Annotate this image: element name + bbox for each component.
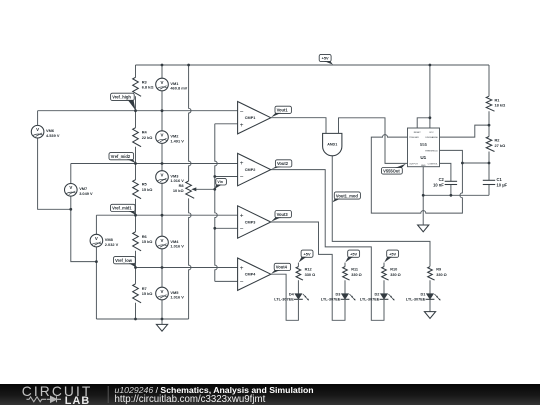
voltmeter VM2	[156, 131, 185, 144]
svg-text:10 nF: 10 nF	[433, 183, 444, 188]
junction dot VM7/VM8	[95, 260, 98, 263]
capacitor C1	[483, 177, 508, 188]
potentiometer R8	[173, 181, 196, 198]
wire 555 GND stub	[422, 167, 424, 196]
wire ladder column	[135, 65, 137, 319]
node label Vout3	[271, 211, 291, 222]
svg-text:D4: D4	[289, 292, 295, 296]
comparator CMP3	[238, 206, 271, 238]
wire R1 R2 C1 column	[488, 65, 490, 195]
svg-text:CMP3: CMP3	[245, 220, 256, 224]
svg-text:TRIGGER: TRIGGER	[409, 137, 419, 139]
voltmeter VM7	[65, 184, 94, 197]
svg-text:Vout1: Vout1	[277, 108, 289, 113]
svg-text:1.016 V: 1.016 V	[170, 295, 184, 300]
wire 555 trigger-threshold loop	[371, 135, 462, 214]
node label Vout2	[271, 160, 292, 169]
svg-text:LAB: LAB	[65, 395, 91, 405]
junction dot reset/vcc	[429, 116, 432, 119]
svg-text:Vref_high: Vref_high	[112, 95, 131, 100]
ground (reference ladder)	[156, 319, 167, 331]
wire Vref_mid1 net	[96, 214, 237, 216]
junction dots Vin column	[213, 175, 216, 230]
svg-text:R9: R9	[436, 268, 441, 272]
svg-text:CMP2: CMP2	[245, 168, 256, 172]
svg-text:+5V: +5V	[304, 251, 311, 256]
wire 555 reset jog	[417, 118, 430, 128]
resistor R10	[382, 267, 401, 280]
wire +5V rail	[136, 64, 490, 66]
resistor R9	[428, 267, 447, 280]
svg-text:−: −	[240, 226, 244, 233]
wire AND1 output Vout1_mod to R9	[332, 156, 430, 267]
junction dot VM6/VM7	[69, 208, 72, 211]
svg-text:2.032 V: 2.032 V	[105, 242, 119, 247]
svg-text:LTL-307EE: LTL-307EE	[360, 298, 380, 302]
node label Vout1	[271, 106, 291, 117]
svg-text:−: −	[240, 174, 244, 181]
junction dots Vref_mid1	[134, 214, 163, 217]
svg-text:R10: R10	[390, 268, 397, 272]
ground (555 timer)	[418, 195, 429, 232]
wire control to C2	[440, 163, 451, 181]
svg-text:+: +	[240, 160, 244, 167]
voltmeter VM3	[156, 171, 185, 184]
junction dots Vref_low	[134, 266, 163, 269]
comparator CMP4	[238, 258, 271, 290]
footer bar	[0, 384, 540, 405]
wire R8 wiper to Vin	[193, 188, 215, 190]
svg-text:3.049 V: 3.049 V	[79, 191, 93, 196]
led D1	[406, 292, 441, 301]
wire CMP1 noninverting input	[215, 123, 238, 125]
svg-text:6.8 kΩ: 6.8 kΩ	[142, 85, 154, 90]
wire VM7 to Vref_mid2	[70, 164, 72, 184]
junction dots ground bus	[134, 318, 163, 321]
svg-text:C2: C2	[439, 177, 445, 182]
node label Vout4	[271, 263, 290, 274]
svg-text:+: +	[240, 265, 244, 272]
svg-text:330 Ω: 330 Ω	[390, 273, 401, 277]
node label Vin	[215, 178, 227, 188]
resistor R1	[486, 96, 505, 111]
node label Vref_mid2	[109, 153, 136, 163]
svg-text:V: V	[161, 133, 164, 138]
svg-text:CONTROL: CONTROL	[428, 164, 439, 166]
wire CMP3 inverting input	[215, 227, 238, 229]
wire Vref_low net	[136, 267, 238, 269]
CircuitLab logo	[22, 384, 93, 405]
svg-text:10 kΩ: 10 kΩ	[173, 188, 184, 193]
svg-text:C1: C1	[497, 177, 503, 182]
junction dots analog ground	[422, 194, 452, 197]
footer text line 2	[115, 394, 266, 405]
svg-text:GND: GND	[421, 165, 426, 167]
svg-text:4.539 V: 4.539 V	[46, 133, 60, 138]
junction dots +5V rail	[161, 64, 432, 67]
wire R12 branch	[297, 263, 299, 294]
wire VM6 to Vref_high	[37, 111, 39, 126]
wire Vout1 to AND1 input A	[271, 118, 326, 134]
svg-text:15 kΩ: 15 kΩ	[142, 187, 153, 192]
svg-text:15 kΩ: 15 kΩ	[142, 291, 153, 296]
svg-text:1.491 V: 1.491 V	[170, 138, 184, 143]
svg-text:OUTPUT: OUTPUT	[409, 164, 418, 166]
svg-text:LTL-307EE: LTL-307EE	[274, 298, 294, 302]
node label +5V (R12)	[299, 250, 313, 262]
comparator CMP2	[238, 153, 271, 185]
wire R8 bottom column to ground bus (hops Vref_mid1, Vref_low)	[189, 198, 191, 319]
svg-text:555: 555	[420, 142, 428, 147]
svg-text:1.016 V: 1.016 V	[170, 244, 184, 249]
svg-text:Vout2: Vout2	[277, 161, 289, 166]
node label +5V (R10)	[384, 250, 398, 262]
led D4	[274, 292, 309, 301]
wire CMP4 inverting input	[215, 280, 238, 282]
led D2	[360, 292, 395, 301]
555 timer U1	[408, 128, 440, 167]
wire discharge to R1/R2 junction	[440, 125, 490, 137]
resistor R4	[133, 128, 153, 147]
svg-text:15 kΩ: 15 kΩ	[142, 239, 153, 244]
svg-text:Vref_mid1: Vref_mid1	[112, 206, 132, 211]
svg-text:RESET: RESET	[414, 132, 422, 134]
svg-text:R11: R11	[351, 268, 359, 272]
wire C2 bottom	[450, 185, 452, 196]
svg-text:DISCHARGE: DISCHARGE	[425, 136, 438, 139]
node label Vref_mid1	[111, 204, 136, 214]
svg-text:1.016 V: 1.016 V	[170, 178, 184, 183]
svg-text:V: V	[69, 185, 72, 190]
svg-text:330 Ω: 330 Ω	[305, 273, 316, 277]
wire threshold to R2 bottom	[462, 162, 489, 164]
svg-text:V555Out: V555Out	[383, 168, 400, 173]
svg-text:Vout4: Vout4	[276, 265, 288, 270]
svg-text:R12: R12	[305, 268, 312, 272]
svg-text:V: V	[161, 80, 164, 85]
svg-text:V: V	[161, 238, 164, 243]
resistor R7	[133, 284, 153, 303]
svg-text:460.8 mV: 460.8 mV	[170, 86, 187, 91]
voltmeter VM5	[156, 287, 185, 300]
footer divider	[107, 386, 109, 403]
wire D1 to ground	[429, 299, 431, 311]
node label V555Out	[382, 164, 406, 174]
wire R8 top column (hops Vref_high, Vref_mid2)	[189, 65, 191, 181]
junction dots threshold node	[461, 162, 490, 165]
svg-text:V: V	[161, 289, 164, 294]
svg-text:U1: U1	[420, 155, 426, 160]
resistor R11	[343, 267, 362, 280]
svg-text:CMP1: CMP1	[245, 116, 256, 120]
wire Vref_high net	[38, 110, 238, 112]
svg-text:LTL-307EE: LTL-307EE	[321, 298, 341, 302]
wire Vout3 to D2 branch	[271, 222, 345, 320]
node label Vout1_mod	[333, 192, 361, 202]
svg-text:Vout1_mod: Vout1_mod	[336, 193, 358, 198]
svg-text:330 Ω: 330 Ω	[351, 273, 362, 277]
svg-text:CMP4: CMP4	[245, 273, 256, 277]
svg-text:V: V	[95, 236, 98, 241]
node label Vref_low	[114, 257, 136, 267]
ground (LED D1)	[424, 312, 435, 319]
footer text line 1	[115, 385, 314, 395]
svg-text:Vin: Vin	[217, 180, 223, 184]
voltmeter VM4	[156, 236, 185, 249]
svg-text:V: V	[36, 127, 39, 132]
svg-text:D3: D3	[335, 292, 340, 296]
node label Vref_high	[111, 93, 136, 110]
svg-text:27 kΩ: 27 kΩ	[495, 143, 506, 148]
voltmeter VM6	[31, 125, 60, 138]
wire Vout4 to D4 branch	[271, 274, 299, 320]
svg-text:+: +	[240, 213, 244, 220]
svg-text:VCC: VCC	[429, 132, 434, 134]
capacitor C2	[433, 177, 457, 188]
resistor R5	[133, 180, 153, 199]
svg-text:330 Ω: 330 Ω	[436, 273, 447, 277]
svg-text:LTL-307EE: LTL-307EE	[406, 298, 426, 302]
svg-text:+5V: +5V	[350, 251, 357, 256]
voltmeter VM1	[156, 78, 188, 91]
svg-text:AND1: AND1	[327, 142, 337, 146]
svg-text:+5V: +5V	[322, 56, 329, 61]
junction dot discharge node	[488, 124, 491, 127]
svg-text:D1: D1	[420, 292, 426, 296]
resistor R2	[486, 137, 505, 152]
resistor R12	[296, 267, 315, 280]
svg-text:−: −	[240, 108, 244, 115]
wire Vref_mid2 net	[71, 163, 238, 165]
svg-text:22 kΩ: 22 kΩ	[142, 135, 153, 140]
voltmeter VM8	[90, 234, 119, 247]
svg-text:18 kΩ: 18 kΩ	[495, 103, 506, 108]
wire R11 branch	[344, 263, 346, 294]
wire VM8 to ground bus	[95, 247, 97, 319]
comparator CMP1	[238, 102, 271, 134]
wire VM6 to ground bus	[38, 138, 71, 209]
svg-text:+5V: +5V	[389, 251, 396, 256]
node label +5V (R11)	[345, 250, 359, 262]
led D3	[321, 292, 356, 301]
and-gate AND1	[323, 133, 342, 155]
wire R9 to D1	[429, 280, 431, 293]
wire analog ground bus	[423, 194, 489, 196]
wire R10 branch	[383, 263, 385, 294]
svg-text:Vref_low: Vref_low	[115, 258, 133, 263]
wire Vin column (hops Vref_mid2, Vref_mid1, Vref_low)	[215, 124, 217, 282]
svg-text:−: −	[240, 278, 244, 285]
svg-text:Vref_mid2: Vref_mid2	[111, 154, 131, 159]
wire CMP2 inverting input	[215, 176, 238, 178]
svg-text:+: +	[240, 122, 244, 129]
resistor R6	[133, 232, 153, 251]
svg-text:Vout3: Vout3	[277, 212, 289, 217]
wire ground bus	[96, 318, 188, 320]
svg-text:THRESHOLD: THRESHOLD	[425, 151, 438, 153]
node label +5V (rail)	[319, 54, 333, 64]
wire 555 output to AND1 input B	[339, 118, 408, 164]
junction dots Vref_high	[134, 109, 163, 112]
svg-text:10 µF: 10 µF	[497, 183, 508, 188]
resistor R3	[133, 77, 154, 96]
svg-text:D2: D2	[374, 292, 379, 296]
wire VM7 bottom	[71, 196, 97, 262]
wire Vout2 to D3 branch	[271, 170, 384, 321]
junction dots Vref_mid2	[134, 162, 163, 165]
svg-text:http://circuitlab.com/c3323xwu: http://circuitlab.com/c3323xwu9fjmt	[115, 394, 266, 405]
wire voltmeter column	[161, 65, 163, 319]
wire 555 VCC riser	[429, 65, 431, 128]
svg-text:V: V	[161, 172, 164, 177]
wire VM8 to Vref_mid1	[95, 215, 97, 234]
